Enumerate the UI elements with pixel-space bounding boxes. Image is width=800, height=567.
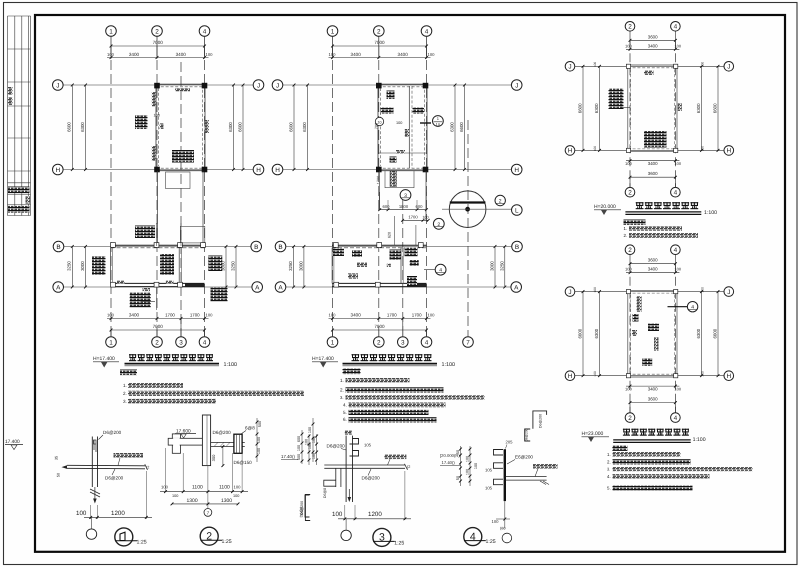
- P3 grid bubble 4 bottom: [671, 187, 681, 197]
- P2 column 2H: [376, 167, 382, 173]
- P3 grid bubble 2 top: [625, 22, 635, 32]
- P4 room walls: [627, 292, 629, 376]
- svg-text:B: B: [515, 244, 519, 251]
- row H bubble left: [53, 164, 64, 175]
- svg-text:L: L: [515, 207, 519, 214]
- S3 bracket b: [305, 495, 310, 521]
- P2 grid line 4 vertical: [426, 46, 428, 337]
- svg-text:500: 500: [258, 421, 262, 427]
- P2 detail callout 10: [433, 116, 444, 127]
- P2 left wall B-A: [331, 248, 333, 284]
- S2 right dim stack B: [301, 430, 303, 464]
- row H line: [63, 169, 254, 171]
- row B bubble left: [53, 241, 64, 252]
- svg-text:D6@200: D6@200: [327, 444, 346, 449]
- svg-text:3600: 3600: [648, 258, 658, 263]
- svg-text:100: 100: [206, 313, 214, 318]
- S1 slab left arrow: [62, 465, 68, 469]
- svg-text:50: 50: [456, 450, 460, 454]
- P1 stairs annotation middle: [160, 254, 174, 275]
- svg-text:7000: 7000: [153, 324, 164, 329]
- P3 right wall vertical label: [678, 103, 682, 111]
- svg-text:4: 4: [691, 305, 694, 311]
- svg-text:J: J: [276, 82, 279, 89]
- P1 title underline: [125, 363, 220, 365]
- svg-text:100: 100: [593, 371, 597, 377]
- svg-text:1300: 1300: [187, 498, 198, 504]
- svg-text:J: J: [56, 82, 59, 89]
- P1 grid line 1 vertical: [110, 46, 112, 337]
- svg-text:4: 4: [425, 339, 429, 346]
- svg-text:620: 620: [388, 232, 392, 238]
- svg-text:17.40(): 17.40(): [281, 454, 295, 459]
- P3 left dims lines: [582, 66, 584, 150]
- svg-text:1700: 1700: [408, 215, 418, 220]
- S1 section bubble 1: [115, 528, 133, 546]
- svg-text:1: 1: [331, 339, 335, 346]
- S2 beam lines: [211, 441, 245, 443]
- P3 grid bubble 4 top: [671, 22, 681, 32]
- P4 row J bubble right: [724, 287, 734, 297]
- P2 bottom dimension 7000: [333, 329, 427, 331]
- S3 left dim stack: [308, 434, 310, 465]
- P1 grid bubble 4 bottom: [204, 330, 206, 337]
- P2 grid bubble 7 bottom: [463, 337, 474, 348]
- svg-text:2: 2: [377, 28, 381, 35]
- P1 roof room walls: [155, 85, 157, 170]
- svg-text:3.: 3.: [340, 395, 344, 400]
- P1 beam label top: [175, 88, 190, 92]
- row J bubble left: [53, 80, 64, 91]
- S4 section bubble 4: [464, 528, 482, 546]
- P3 row J bubble right: [724, 62, 734, 72]
- P3 right dims lines: [701, 66, 703, 150]
- svg-text:D6@200: D6@200: [525, 428, 529, 441]
- svg-text:4: 4: [674, 247, 678, 254]
- P2 grid line 3 vertical: [402, 200, 404, 337]
- svg-text:4.: 4.: [607, 474, 611, 479]
- svg-text:6300: 6300: [302, 122, 307, 132]
- P1 left dims 3250 3000: [71, 247, 73, 288]
- P3 notes header: [624, 220, 646, 225]
- P1 right dims 3000 3250: [225, 247, 227, 288]
- row B bubble right: [251, 241, 262, 252]
- row B line: [286, 246, 513, 248]
- svg-text:100: 100: [674, 386, 681, 391]
- svg-text:2.: 2.: [624, 233, 628, 238]
- P2 grid bubble 2 bottom: [378, 330, 380, 337]
- svg-text:1: 1: [109, 339, 113, 346]
- P1 grid3 solid segment above B: [180, 223, 182, 246]
- P1 column 4H: [202, 167, 208, 173]
- P2 detail callout 3: [400, 190, 411, 201]
- P1 wall text XJL b: [166, 281, 174, 284]
- svg-text:H=20.000: H=20.000: [594, 204, 616, 210]
- svg-text:3400: 3400: [648, 386, 658, 391]
- P2 wall columns B row: [333, 243, 338, 248]
- S3 section bubble 3: [373, 528, 391, 546]
- S4 hook a: [494, 450, 504, 456]
- svg-text:3400: 3400: [176, 52, 187, 57]
- svg-text:2: 2: [499, 199, 502, 205]
- svg-text:2: 2: [377, 339, 381, 346]
- P4 grid bubble 4 top: [671, 245, 681, 255]
- S2 tall member: [202, 415, 210, 466]
- svg-text:100: 100: [233, 494, 239, 498]
- P2 detail callout 4: [435, 264, 446, 275]
- svg-text:2: 2: [437, 222, 440, 228]
- row A bubble right: [252, 282, 263, 293]
- S4 hook c: [494, 479, 504, 485]
- P4 corner columns: [626, 290, 630, 294]
- svg-text:J: J: [727, 64, 730, 71]
- row A bubble right: [511, 282, 522, 293]
- svg-text:100: 100: [625, 267, 632, 272]
- svg-text:700: 700: [374, 123, 378, 129]
- P1 A wall: [111, 282, 205, 284]
- svg-text:3000: 3000: [80, 261, 85, 271]
- svg-text:6600: 6600: [713, 328, 718, 338]
- svg-text:1: 1: [109, 28, 113, 35]
- svg-text:B: B: [56, 244, 60, 251]
- svg-text:100: 100: [329, 313, 337, 318]
- svg-text:100: 100: [172, 494, 178, 498]
- P2 left dims 3250 3000: [293, 247, 295, 288]
- svg-text:3400: 3400: [129, 313, 140, 318]
- svg-text:1.: 1.: [340, 378, 344, 383]
- S1 small circle: [91, 517, 93, 529]
- svg-text:105: 105: [364, 443, 372, 448]
- svg-text:J: J: [515, 82, 518, 89]
- svg-text:D6@8: D6@8: [323, 488, 327, 498]
- svg-text:3250: 3250: [231, 261, 236, 271]
- svg-text:100: 100: [466, 469, 470, 475]
- svg-text:500: 500: [297, 454, 301, 460]
- P2 grid bubble 4 top: [421, 26, 432, 37]
- P2 grid bubble 3 bottom: [402, 319, 404, 338]
- svg-text:105: 105: [485, 468, 493, 473]
- P2 grid line 1 vertical: [332, 46, 334, 337]
- row B bubble left: [275, 241, 286, 252]
- svg-text:6600: 6600: [578, 103, 583, 113]
- P2 right dims 3000 3250: [494, 247, 496, 288]
- P3 bottom dim 3600: [630, 176, 675, 178]
- svg-text:6600: 6600: [713, 103, 718, 113]
- P4 right dims lines: [701, 292, 703, 376]
- svg-text:D6@200: D6@200: [213, 430, 232, 435]
- P2 left dims 6600 6300: [293, 85, 295, 170]
- S3 slab right break: [405, 464, 408, 470]
- svg-text:3400: 3400: [648, 267, 658, 272]
- svg-text:3600: 3600: [648, 397, 658, 402]
- svg-text:100: 100: [422, 216, 428, 220]
- svg-text:1:25: 1:25: [486, 539, 496, 545]
- P1 below-A annotation: [130, 293, 151, 308]
- S4 main member: [504, 449, 506, 501]
- P2 solid column lines below H: [378, 171, 380, 210]
- svg-text:3: 3: [179, 339, 183, 346]
- P1 column 2J: [154, 83, 160, 89]
- S3 top tiny label: [345, 431, 352, 435]
- P2 vertical lines stair: [394, 216, 396, 245]
- P2 stairs annotation b: [405, 248, 418, 257]
- P2 title underline: [343, 363, 438, 365]
- P1 grid bubble 3 bottom: [180, 319, 182, 338]
- svg-text:100: 100: [625, 43, 632, 48]
- P2 big circle center dot: [465, 207, 470, 212]
- svg-text:1100: 1100: [192, 485, 203, 491]
- P1 stairs annotation above B: [135, 226, 155, 239]
- S1 dim line: [84, 516, 152, 518]
- P4 notes header: [612, 446, 627, 451]
- P4 row H bubble right: [724, 371, 734, 381]
- P2 detail callout 4 leader: [424, 269, 435, 271]
- svg-text:100: 100: [312, 453, 316, 459]
- P3 grid bubble 2 bottom: [625, 187, 635, 197]
- P2 slab annotation a: [387, 91, 395, 100]
- row J bubble left: [272, 80, 283, 91]
- svg-text:600: 600: [416, 204, 424, 209]
- svg-text:4: 4: [439, 268, 442, 274]
- P2 left callout 10: [375, 117, 383, 125]
- P2 section cut tick: [420, 122, 431, 124]
- P3 row H bubble left: [565, 146, 575, 156]
- P4 bottom dim 3600: [630, 402, 675, 404]
- P4 grid bubble 4 bottom: [671, 413, 681, 423]
- svg-text:100: 100: [428, 52, 436, 57]
- svg-text:100: 100: [492, 519, 500, 524]
- svg-text:1:100: 1:100: [693, 437, 706, 443]
- svg-text:50: 50: [456, 476, 460, 480]
- svg-text:100: 100: [332, 511, 343, 518]
- svg-text:2.: 2.: [340, 388, 344, 393]
- svg-text:(60: (60: [500, 527, 506, 531]
- svg-text:5.: 5.: [607, 486, 611, 491]
- S2 dim line upper: [160, 491, 248, 493]
- P4 detail callout 4: [668, 306, 688, 308]
- P3 top dim 100 3400 100: [626, 48, 679, 50]
- P1 annotation block left: [135, 115, 148, 129]
- P1 notes header: [120, 370, 137, 376]
- svg-text:105: 105: [485, 486, 493, 491]
- S4 small circle: [502, 533, 512, 543]
- svg-text:2.: 2.: [607, 460, 611, 465]
- svg-text:4: 4: [674, 415, 678, 422]
- P2 interior beam vertical: [408, 86, 410, 168]
- svg-text:5.: 5.: [343, 410, 347, 415]
- svg-text:6300: 6300: [450, 122, 455, 132]
- P4 row J line: [575, 291, 724, 293]
- svg-text:100: 100: [308, 427, 312, 433]
- svg-text:6600: 6600: [578, 328, 583, 338]
- svg-text:6600: 6600: [67, 122, 72, 132]
- P2 slab annotation c: [413, 108, 425, 114]
- svg-text:D6@150: D6@150: [234, 460, 253, 465]
- P2 A wall: [332, 282, 427, 284]
- P2 column 4J: [423, 83, 429, 89]
- P2 slab annotation b: [381, 108, 394, 114]
- svg-text:3000: 3000: [298, 261, 303, 271]
- svg-text:A: A: [56, 284, 61, 291]
- P4 annotation e: [642, 358, 652, 366]
- P4 top dim 100 3400 100: [626, 272, 679, 274]
- svg-text:D6@200: D6@200: [362, 476, 381, 481]
- P1 grid2 solid segment: [156, 223, 158, 246]
- S1 wall rebar hook: [94, 440, 97, 452]
- svg-text:2: 2: [628, 24, 632, 31]
- P3 room label: [644, 71, 654, 76]
- svg-text:6600: 6600: [289, 122, 294, 132]
- svg-text:H: H: [568, 148, 573, 155]
- P4 grid line 4 vertical: [674, 264, 676, 413]
- svg-text:3600: 3600: [648, 171, 658, 176]
- row H bubble right: [253, 164, 264, 175]
- svg-text:3400: 3400: [648, 161, 658, 166]
- row A bubble left: [53, 282, 64, 293]
- S4 slab annotation: [533, 464, 558, 469]
- S3 hook top b: [350, 451, 359, 457]
- row H line: [283, 169, 512, 171]
- svg-text:4.: 4.: [343, 403, 347, 408]
- svg-text:2.: 2.: [123, 391, 127, 396]
- S1 dim extension lines: [90, 505, 92, 519]
- svg-text:6300: 6300: [228, 122, 233, 132]
- P1 grid line 4 vertical: [204, 46, 206, 337]
- P1 beam label right vertical: [205, 120, 209, 133]
- P2 column 4H: [423, 167, 429, 173]
- svg-text:H: H: [514, 167, 519, 174]
- P2 wall columns A row: [334, 282, 339, 287]
- svg-text:1700: 1700: [190, 313, 200, 318]
- row H bubble right: [511, 164, 522, 175]
- svg-text:A: A: [278, 284, 283, 291]
- S3 hook top a: [350, 439, 359, 445]
- svg-text:7: 7: [466, 339, 470, 346]
- P1 grid bubble 1 bottom: [110, 330, 112, 337]
- title block label text upper: [8, 87, 13, 95]
- P1 stairs annotation left: [92, 256, 106, 275]
- row A line: [286, 286, 512, 288]
- P2 stairs annotation e: [407, 276, 417, 286]
- svg-text:3400: 3400: [648, 43, 658, 48]
- P1 beam label left vertical: [152, 92, 156, 107]
- row B line: [64, 246, 252, 248]
- P2 top bubble stems: [332, 36, 334, 59]
- svg-text:2: 2: [155, 28, 159, 35]
- svg-text:6600: 6600: [238, 122, 243, 132]
- svg-text:6600: 6600: [459, 122, 464, 132]
- S2 bottom extension lines: [165, 448, 167, 492]
- svg-text:B: B: [278, 244, 282, 251]
- svg-text:2: 2: [155, 339, 159, 346]
- svg-text:1300: 1300: [221, 498, 232, 504]
- P1 mid wall at 3: [178, 248, 180, 284]
- svg-text:J: J: [568, 64, 571, 71]
- svg-text:A: A: [255, 284, 260, 291]
- P1 stair shaft below H: [166, 172, 191, 189]
- P4 row H bubble left: [565, 371, 575, 381]
- P4 grid line 2 vertical: [629, 264, 631, 413]
- P1 left wall B-A: [110, 248, 112, 284]
- svg-text:35: 35: [55, 456, 59, 460]
- svg-text:J: J: [727, 289, 730, 296]
- S4 top bracket b: [525, 429, 531, 441]
- svg-text:2: 2: [628, 247, 632, 254]
- P3 annotation bottom block: [644, 131, 667, 148]
- svg-text:100: 100: [107, 313, 115, 318]
- S2 beam section box: [234, 434, 242, 453]
- svg-text:3000: 3000: [490, 261, 495, 271]
- P2 grid bubble 1 top: [327, 26, 338, 37]
- title block signature rows text: [8, 187, 30, 194]
- svg-text:100: 100: [474, 463, 478, 469]
- svg-text:3: 3: [404, 193, 407, 199]
- P2 B wall: [332, 244, 427, 246]
- svg-text:2: 2: [628, 415, 632, 422]
- svg-text:4: 4: [425, 28, 429, 35]
- P1 stairs annotation right: [208, 256, 222, 272]
- svg-text:205: 205: [506, 440, 514, 445]
- P3 corner columns: [626, 64, 630, 68]
- P1 beam label left vertical 2: [152, 146, 156, 161]
- P2 stairs annotation mid d: [348, 274, 358, 279]
- svg-text:D6@200: D6@200: [103, 430, 122, 435]
- P4 bottom dim 100 3400 100: [626, 385, 679, 387]
- svg-text:100: 100: [257, 437, 261, 443]
- P2 room bottom blob: [390, 157, 397, 163]
- P2 interior beam horizontal: [378, 152, 427, 154]
- P3 annotation left block: [609, 89, 624, 110]
- svg-text:4: 4: [470, 531, 476, 543]
- P1 wall text XJL a: [117, 281, 125, 284]
- svg-text:100: 100: [297, 445, 301, 451]
- P2 bottom dimension segments: [329, 318, 431, 320]
- P1 grid line 2 vertical: [156, 46, 158, 337]
- svg-text:J: J: [257, 82, 260, 89]
- svg-text:1200: 1200: [111, 510, 125, 517]
- P2 top dimension 3400+3400: [329, 57, 431, 59]
- P2 right dims 6300 6600: [454, 85, 456, 170]
- P2 grid bubble 2 top: [374, 26, 385, 37]
- P1 wall columns B row: [111, 243, 116, 248]
- svg-text:100: 100: [76, 510, 87, 517]
- P4 annotation c: [648, 324, 659, 332]
- svg-text:J: J: [568, 289, 571, 296]
- P1 top dimension 3400+3400: [107, 57, 209, 59]
- P4 annotation f: [632, 330, 637, 336]
- P1 top bubble stems: [110, 36, 112, 59]
- svg-text:4: 4: [674, 24, 678, 31]
- svg-text:7000: 7000: [374, 40, 385, 45]
- P4 left dims lines: [582, 292, 584, 376]
- svg-text:100: 100: [674, 161, 681, 166]
- P1 solid column lines H to B: [157, 171, 159, 243]
- P3 annotation leader: [621, 106, 630, 108]
- row J line: [63, 84, 254, 86]
- svg-text:1100: 1100: [219, 485, 230, 491]
- svg-text:100: 100: [154, 114, 160, 118]
- row G bubble right: [512, 205, 523, 216]
- svg-text:6300: 6300: [80, 122, 85, 132]
- svg-text:6300: 6300: [696, 103, 701, 113]
- P3 row H line: [575, 149, 724, 151]
- svg-text:1:100: 1:100: [224, 362, 238, 368]
- P1 annotation block bottom: [172, 150, 194, 163]
- P2 big circle chord: [450, 201, 486, 203]
- svg-text:3400: 3400: [351, 52, 362, 57]
- svg-text:100: 100: [396, 121, 402, 125]
- P1 B wall: [111, 244, 205, 246]
